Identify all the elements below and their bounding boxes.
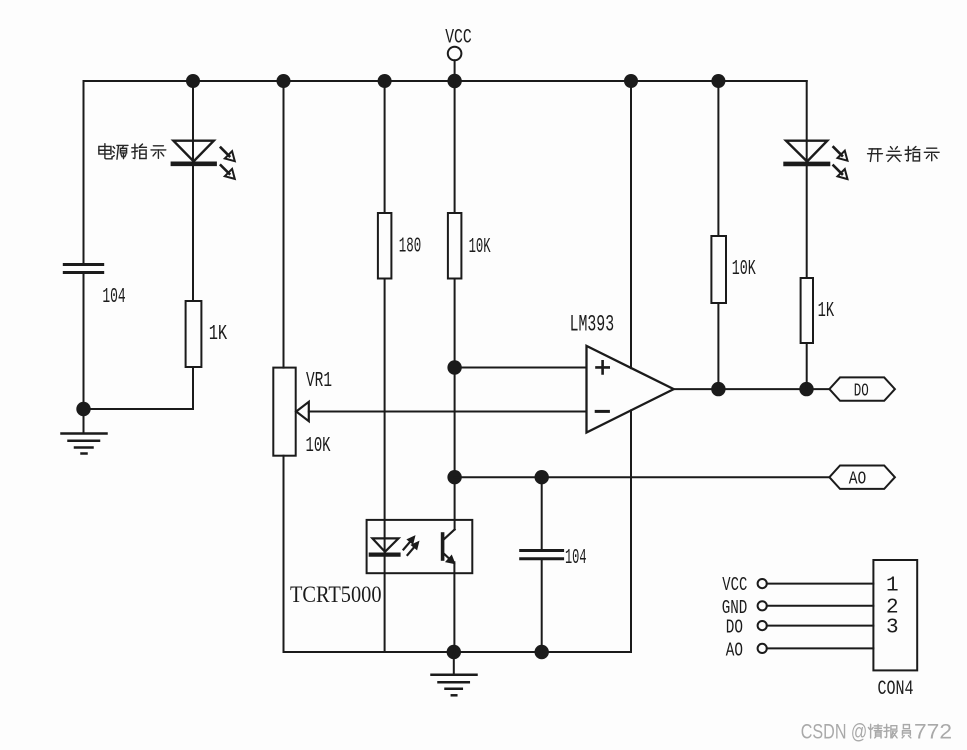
- watermark CSDN: [801, 719, 952, 743]
- resistor R1 180: [378, 213, 392, 279]
- junction AO at C2: [535, 470, 549, 484]
- wire LED D2 cathode: [806, 166, 808, 278]
- pin 4 AO: terminal, wire, label: [726, 639, 874, 661]
- svg-text:DO: DO: [726, 617, 743, 639]
- wire opamp ground to bottom rail: [630, 410, 632, 652]
- pin 1 VCC: terminal, wire, label, number: [722, 574, 898, 597]
- pin 3 DO: terminal, wire, label, number: [726, 616, 899, 639]
- junction top rail at VCC stub: [447, 74, 461, 88]
- label 电源指示: [99, 144, 166, 159]
- svg-text:1K: 1K: [818, 300, 835, 323]
- svg-text:104: 104: [102, 286, 125, 309]
- wire VR1 top: [283, 81, 285, 368]
- wire C2 bottom lead: [541, 560, 543, 652]
- junction left ground node: [76, 402, 90, 416]
- optocoupler TCRT5000: [367, 520, 473, 573]
- svg-text:1: 1: [886, 575, 899, 598]
- resistor R4 10K: [711, 236, 726, 303]
- svg-text:10K: 10K: [306, 435, 331, 458]
- wire R4 10K top: [717, 81, 719, 236]
- resistor R5 1K: [801, 278, 813, 343]
- wire top power rail: [84, 80, 807, 82]
- wire VR1 wiper to opamp minus: [309, 411, 587, 413]
- wire LED D2 anode from rail corner: [806, 81, 808, 162]
- capacitor C2 104: [521, 551, 563, 559]
- wire LED D1 cathode: [192, 166, 194, 301]
- svg-text:104: 104: [565, 547, 587, 570]
- svg-text:CON4: CON4: [878, 678, 914, 701]
- svg-text:180: 180: [399, 236, 421, 259]
- resistor R3 10K: [448, 213, 462, 279]
- junction output at R4: [711, 382, 725, 396]
- watermark glyphs 情报员: [868, 724, 910, 738]
- pin 2 GND: terminal, wire, label, number: [722, 597, 899, 620]
- svg-text:VCC: VCC: [445, 26, 472, 49]
- svg-text:10K: 10K: [732, 258, 756, 281]
- potentiometer VR1 10K: [273, 368, 309, 456]
- LED D2 switch indicator: [786, 141, 848, 179]
- wire R5 bottom: [806, 343, 808, 389]
- wire R2 bottom: [192, 367, 194, 409]
- junction top rail at R 180: [378, 74, 392, 88]
- svg-text:LM393: LM393: [570, 311, 615, 337]
- svg-text:CSDN @: CSDN @: [801, 719, 868, 743]
- junction plus-input node: [447, 360, 461, 374]
- port flag DO: [829, 377, 895, 401]
- svg-text:772: 772: [914, 719, 952, 743]
- wire C2 top lead: [541, 477, 543, 549]
- capacitor C1 104: [64, 265, 102, 273]
- svg-text:3: 3: [886, 616, 899, 639]
- wire opamp output: [674, 388, 830, 390]
- junction top rail at VR1: [277, 74, 291, 88]
- wire R1 bottom through TCRT LED to bottom rail: [384, 279, 386, 653]
- wire R3 bottom down to phototransistor collector: [454, 279, 456, 530]
- LED D1 power indicator: [173, 141, 235, 179]
- ground GND left: [62, 409, 107, 454]
- junction top rail at LED1: [186, 74, 200, 88]
- wire VR1 bottom: [283, 456, 285, 652]
- svg-text:10K: 10K: [469, 236, 491, 259]
- junction output at R5: [799, 382, 813, 396]
- label 开关指示: [868, 146, 939, 161]
- junction top rail at opamp power: [624, 74, 638, 88]
- wire to opamp plus input: [455, 367, 587, 369]
- svg-text:AO: AO: [726, 639, 743, 661]
- svg-text:AO: AO: [849, 470, 867, 490]
- junction bottom rail ground node: [447, 645, 461, 659]
- power port VCC: [445, 26, 472, 81]
- op-amp U1 LM393: [587, 346, 674, 433]
- ground GND middle: [432, 652, 477, 695]
- wire AO line: [455, 476, 830, 478]
- connector CON4: [873, 560, 917, 670]
- wire R1 180 top: [384, 81, 386, 213]
- junction top rail at R 10K right: [711, 74, 725, 88]
- wire bottom rail: [284, 651, 632, 653]
- wire opamp power from VCC: [630, 81, 632, 368]
- svg-text:1K: 1K: [209, 323, 228, 346]
- wire phototransistor emitter to bottom rail: [453, 562, 455, 652]
- resistor R2 1K: [186, 301, 202, 367]
- wire R4 bottom: [717, 303, 719, 389]
- port flag AO: [829, 466, 895, 490]
- svg-text:TCRT5000: TCRT5000: [290, 582, 382, 608]
- svg-text:DO: DO: [854, 382, 869, 402]
- junction bottom rail at C2: [535, 645, 549, 659]
- wire bottom-left horizontal: [84, 408, 194, 410]
- wire left branch lower: [83, 274, 85, 409]
- wire LED D1 anode: [192, 81, 194, 162]
- svg-text:VR1: VR1: [306, 370, 332, 393]
- junction AO node: [447, 470, 461, 484]
- wire R3 10K top: [454, 81, 456, 213]
- wire left branch upper: [83, 81, 85, 263]
- svg-text:VCC: VCC: [722, 574, 747, 596]
